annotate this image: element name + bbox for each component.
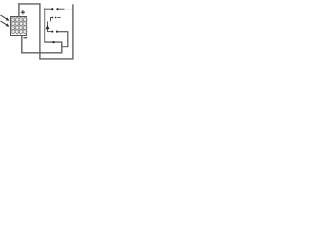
photocell G1 body [11, 17, 27, 36]
wiper arrow shaft [47, 22, 49, 32]
wire: vertical from S3 corner down [67, 32, 69, 48]
wire: middle horizontal at y42 [44, 41, 62, 43]
contact S3 left segment [47, 31, 52, 33]
contact S3 right segment to corner [58, 31, 69, 33]
wire: stub left to inner vertical [63, 46, 69, 48]
node: contact S1 left dot [51, 8, 53, 10]
wire: bottom outer rail [39, 58, 73, 60]
photocell G1 hatch pattern [11, 17, 27, 35]
wiper arrow head [46, 25, 50, 29]
contact S1 right segment [58, 8, 65, 10]
node: contact S2 left dot [52, 17, 54, 19]
wire: inner vertical up from bottom rail [61, 42, 63, 54]
contact S2 right segment [58, 17, 61, 19]
faint component between S1 and right rail [66, 8, 73, 10]
node: contact S3 left dot [51, 31, 53, 33]
wire: middle vertical x44.5 [44, 9, 46, 43]
node: contact S3 right dot [56, 31, 58, 33]
wire: right vertical rail [72, 4, 74, 59]
light arrow 1 [1, 15, 7, 19]
wire: bottom terminal of G1 down [21, 36, 23, 54]
node: contact S1 right dot [56, 8, 58, 10]
wire: top terminal of G1 up [18, 3, 20, 16]
minus label [24, 37, 28, 39]
wire: top rail to the right [18, 3, 40, 5]
plus label [21, 10, 25, 14]
wire: bottom inner rail [21, 52, 62, 54]
wire: S2 stub down [50, 18, 52, 22]
node: contact S2 right dot [55, 17, 57, 19]
node: junction on y42 wire [52, 41, 54, 43]
wire: left long vertical down to bottom rail [39, 3, 41, 59]
contact S2 left segment [50, 17, 53, 19]
contact S1 left segment [44, 8, 52, 10]
light arrow 2 [1, 21, 7, 25]
